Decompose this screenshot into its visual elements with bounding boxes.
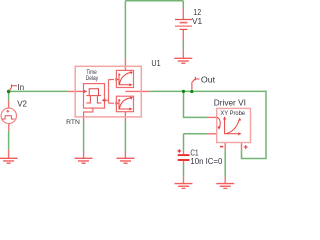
- svg-text:In: In: [18, 83, 25, 92]
- svg-text:V1: V1: [192, 16, 203, 26]
- svg-text:10n IC=0: 10n IC=0: [190, 156, 222, 166]
- svg-text:Delay: Delay: [86, 75, 99, 82]
- svg-text:V2: V2: [17, 99, 27, 109]
- svg-text:RTN: RTN: [66, 119, 80, 126]
- svg-text:Driver VI: Driver VI: [214, 97, 246, 107]
- svg-text:XY Probe: XY Probe: [220, 110, 245, 117]
- svg-text:U1: U1: [151, 58, 160, 68]
- svg-text:Out: Out: [201, 74, 216, 84]
